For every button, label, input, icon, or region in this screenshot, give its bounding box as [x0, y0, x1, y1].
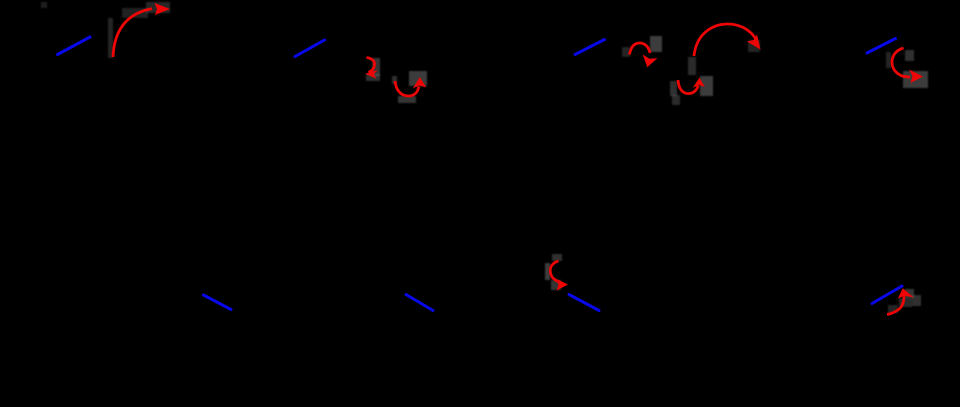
- arrow A2 (small hook, structure 2): [367, 58, 375, 73]
- arrow A9 (S-curve, structure 8): [887, 294, 904, 315]
- bond B2 (structure 2, C=N): [295, 40, 325, 57]
- head of arrow A5: [693, 78, 705, 88]
- arrow A5 (U-turn, structure 4): [678, 80, 698, 94]
- blue bonds: [58, 37, 903, 311]
- head of arrow A7: [909, 70, 923, 84]
- bond B5 (structure 5, C-N): [204, 295, 232, 310]
- head of arrow A9: [898, 288, 914, 298]
- arrow A4 (arch, structure 3): [630, 43, 651, 55]
- red arrowheads: [155, 3, 924, 299]
- arrow A6 (big rainbow arc, structure 4): [694, 24, 757, 56]
- head of arrow A3: [413, 77, 427, 89]
- bond B6 (structure 6, C-N): [406, 295, 433, 311]
- head of arrow A2: [365, 70, 378, 79]
- arrow A8 (C-curl at O, structure 7): [550, 261, 559, 282]
- head of arrow A1: [155, 3, 171, 15]
- bond B8 (structure 8, C-N): [872, 286, 902, 304]
- arrow A3 (U-turn, structure 2): [395, 81, 419, 96]
- bond B7 (structure 7, C-N): [569, 295, 599, 311]
- head of arrow A4: [643, 55, 658, 68]
- head of arrow A6: [747, 35, 761, 50]
- gray AA halo blobs: [41, 2, 928, 313]
- bond B4 (structure 4, C=N): [867, 39, 896, 54]
- arrow A1 (big quarter arc, structure 1): [113, 9, 152, 57]
- bond B3 (structure 3, C=N): [575, 40, 605, 55]
- head of arrow A8: [556, 279, 569, 291]
- bond B1 (structure 1, C=N): [58, 37, 91, 55]
- arrow A7 (C-curl, structure 4/5): [892, 48, 910, 77]
- red curved arrows: [113, 9, 910, 315]
